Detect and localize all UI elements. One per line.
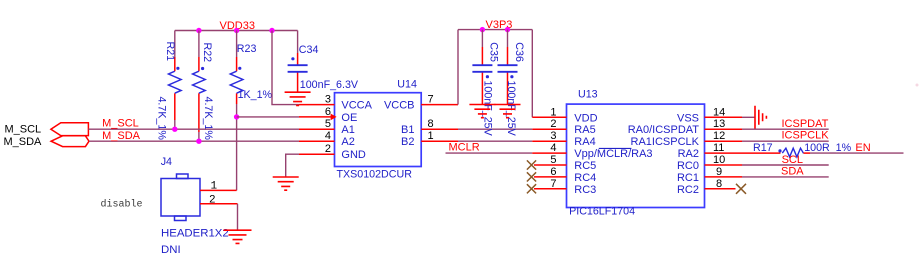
wire R22 to M_SDA xyxy=(198,132,200,141)
wire EN xyxy=(810,152,904,154)
U13 pin 8 RC2 stub (no connect) xyxy=(705,188,736,190)
svg-text:VSS: VSS xyxy=(677,112,699,124)
svg-text:100nF_6.3V: 100nF_6.3V xyxy=(300,79,359,91)
resistor R1 pin leads R21 xyxy=(174,57,176,120)
svg-text:VDD: VDD xyxy=(574,112,597,124)
U13 pin 12 ICSPCLK stub xyxy=(705,140,743,142)
U14 pin 2 GND stub xyxy=(299,153,335,155)
wire J4 pin 2 to ground xyxy=(237,204,239,230)
svg-text:J4: J4 xyxy=(161,156,172,168)
wire VDD33 to R23 xyxy=(236,31,238,58)
svg-text:A1: A1 xyxy=(341,124,354,136)
svg-text:M_SCL: M_SCL xyxy=(102,118,139,130)
U13 pin 2 RA5 stub xyxy=(532,128,566,130)
overline over MCLR xyxy=(599,147,632,149)
svg-text:A2: A2 xyxy=(341,136,354,148)
svg-text:DNI: DNI xyxy=(161,244,181,256)
resistor R22 xyxy=(193,71,206,93)
svg-text:RC5: RC5 xyxy=(574,160,596,172)
svg-text:7: 7 xyxy=(428,94,434,106)
svg-text:SCL: SCL xyxy=(782,154,803,166)
svg-text:11: 11 xyxy=(713,142,724,154)
svg-text:RA5: RA5 xyxy=(574,124,595,136)
junction V3P3/C36 xyxy=(505,27,510,32)
wire VSS to ground xyxy=(742,116,755,118)
svg-text:PIC16LF1704: PIC16LF1704 xyxy=(569,205,635,217)
junction V3P3/C35 xyxy=(480,27,485,32)
wire B1 to U13 RA5 xyxy=(458,128,532,130)
no-connect X pin 5 xyxy=(527,160,536,169)
U14 pin 4 A2 stub xyxy=(299,140,335,142)
svg-text:GND: GND xyxy=(341,149,366,161)
svg-text:7: 7 xyxy=(550,178,556,190)
svg-text:C35: C35 xyxy=(488,42,500,62)
port M_SCL xyxy=(51,123,89,136)
resistor R17 xyxy=(782,148,803,157)
svg-text:ICSPDAT: ICSPDAT xyxy=(782,118,829,130)
U13 pin 11 RA2 stub xyxy=(705,152,781,154)
capacitor C34 xyxy=(288,65,308,72)
U14 pin 8 B1 stub xyxy=(421,128,458,130)
pin1 dot R22 xyxy=(201,67,204,70)
svg-text:MCLR: MCLR xyxy=(449,142,480,154)
svg-text:3: 3 xyxy=(325,94,331,106)
no-connect X pin 6 xyxy=(527,172,536,181)
wire U14 GND to ground xyxy=(286,154,299,176)
wire ICSPDAT xyxy=(742,128,829,130)
faint artifact dot xyxy=(916,84,919,87)
svg-text:1: 1 xyxy=(211,181,218,193)
wire B2 to U13 RA4 xyxy=(458,140,532,142)
svg-text:3: 3 xyxy=(550,130,556,142)
svg-text:ICSPCLK: ICSPCLK xyxy=(782,130,830,142)
svg-text:5: 5 xyxy=(550,154,556,166)
pin1 dot C34 xyxy=(291,57,294,60)
pin1 dot R21 xyxy=(176,67,179,70)
svg-text:2: 2 xyxy=(325,143,331,155)
ground under U14 GND xyxy=(273,177,299,190)
svg-text:Vpp/MCLR/RA3: Vpp/MCLR/RA3 xyxy=(574,148,652,160)
capacitor C34 leads xyxy=(297,53,299,92)
svg-text:RA2: RA2 xyxy=(678,148,699,160)
wire SDA xyxy=(742,176,829,178)
U13 pin names right xyxy=(628,112,700,196)
svg-text:5: 5 xyxy=(325,118,331,130)
wire MCLR to U13 pin 4 xyxy=(446,152,533,154)
ground under C35 xyxy=(469,105,495,118)
wire V3P3 to U13 VDD xyxy=(531,30,533,118)
U14 pin 6 arrow xyxy=(331,114,337,121)
U14 pin 6 OE stub xyxy=(299,116,331,118)
svg-text:1: 1 xyxy=(428,130,434,142)
U13 pin 7 RC3 stub (no connect) xyxy=(534,188,567,190)
svg-text:2: 2 xyxy=(550,118,556,130)
wire VDD33 to R22 xyxy=(198,31,200,58)
transistor U13 body xyxy=(567,104,705,207)
resistor R22 pin leads xyxy=(198,57,200,132)
svg-text:4: 4 xyxy=(550,142,556,154)
junction VDD33/R22 xyxy=(196,28,201,33)
U14 pin 5 A1 stub xyxy=(299,128,335,130)
svg-text:8: 8 xyxy=(428,118,434,130)
pin1 dot C36 xyxy=(510,75,513,78)
U14 pin 3 VCCA stub xyxy=(299,104,335,106)
junction VDD33/R23 xyxy=(234,28,239,33)
U13 pin 14 VSS stub xyxy=(705,116,743,118)
wire ICSPCLK xyxy=(742,140,829,142)
wire VDD33 to U14 VCCA xyxy=(272,31,299,105)
svg-text:SDA: SDA xyxy=(781,166,804,178)
svg-text:RC2: RC2 xyxy=(677,184,699,196)
U14 pin names right xyxy=(384,100,415,149)
svg-text:13: 13 xyxy=(713,118,725,130)
pin1 dot R23 xyxy=(238,67,241,70)
svg-text:disable: disable xyxy=(101,199,143,211)
wire VDD33 rail xyxy=(175,30,298,32)
svg-text:M_SCL: M_SCL xyxy=(5,124,42,136)
U13 pin names left xyxy=(574,112,652,196)
svg-text:RA0/ICSPDAT: RA0/ICSPDAT xyxy=(628,124,700,136)
svg-text:4.7K_1%: 4.7K_1% xyxy=(155,97,167,141)
junction M_SDA/R22 xyxy=(196,139,201,144)
J4 pin 1 wire xyxy=(200,189,237,191)
no-connect X pin 8 xyxy=(736,184,746,194)
svg-text:4.7K_1%: 4.7K_1% xyxy=(202,97,214,141)
capacitor C36 leads xyxy=(507,47,509,104)
no-connect X pin 7 xyxy=(527,184,536,193)
op-amp U14 body xyxy=(335,93,422,167)
svg-text:VCCB: VCCB xyxy=(384,100,415,112)
svg-text:10: 10 xyxy=(713,154,725,166)
svg-text:14: 14 xyxy=(713,106,725,118)
U13 pin 9 RC1 stub xyxy=(705,176,743,178)
svg-text:C34: C34 xyxy=(299,44,319,56)
ground under J4 xyxy=(224,230,252,243)
svg-text:8: 8 xyxy=(716,178,722,190)
U14 pin names left xyxy=(341,100,372,162)
wire R23 down to J4 pin 1 xyxy=(236,104,238,190)
wire V3P3 to C36 xyxy=(507,30,509,47)
svg-text:RC3: RC3 xyxy=(574,184,596,196)
U14 pin 7 VCCB stub xyxy=(421,104,458,106)
svg-text:2: 2 xyxy=(209,195,216,207)
U14 pin 1 B2 stub xyxy=(421,140,458,142)
svg-text:EN: EN xyxy=(855,142,870,154)
svg-text:12: 12 xyxy=(713,130,725,142)
U13 pin 13 ICSPDAT stub xyxy=(705,128,743,130)
capacitor C35 leads xyxy=(481,47,483,104)
wire M_SDA to U14 A2 xyxy=(89,140,299,142)
wire SCL xyxy=(742,164,829,166)
connector J4 xyxy=(161,174,200,221)
svg-text:R22: R22 xyxy=(201,43,213,63)
svg-text:TXS0102DCUR: TXS0102DCUR xyxy=(337,168,413,180)
wire R21 to M_SCL xyxy=(174,120,176,129)
ground at VSS (rotated) xyxy=(755,106,766,129)
svg-text:6: 6 xyxy=(325,106,331,118)
svg-text:R17: R17 xyxy=(753,142,773,154)
svg-text:OE: OE xyxy=(341,112,357,124)
U13 pin 5 RC5 stub (no connect) xyxy=(534,164,567,166)
capacitor C35 xyxy=(472,65,492,72)
svg-text:1K_1%: 1K_1% xyxy=(238,89,273,101)
svg-text:R21: R21 xyxy=(164,42,176,62)
port M_SDA xyxy=(51,136,89,147)
svg-text:RC1: RC1 xyxy=(677,172,699,184)
ground under C36 xyxy=(495,105,521,118)
ground under C34 xyxy=(285,92,311,105)
svg-text:1: 1 xyxy=(550,106,556,118)
junction M_SCL/R21 xyxy=(172,127,177,132)
svg-text:4: 4 xyxy=(325,130,331,142)
svg-text:RA1ICSPCLK: RA1ICSPCLK xyxy=(631,136,700,148)
svg-text:100R_1%: 100R_1% xyxy=(804,142,851,154)
resistor R17 lead right xyxy=(804,152,811,154)
junction R23/OE wire xyxy=(234,114,239,119)
wire V3P3 rail xyxy=(458,29,532,31)
svg-text:U13: U13 xyxy=(578,89,598,101)
resistor R23 pin leads xyxy=(236,57,238,104)
svg-text:9: 9 xyxy=(716,166,722,178)
svg-text:M_SDA: M_SDA xyxy=(102,130,141,142)
wire V3P3 to C35 xyxy=(481,30,483,47)
svg-text:U14: U14 xyxy=(397,78,417,90)
svg-text:RA4: RA4 xyxy=(574,136,595,148)
wire VDD33 to C34 xyxy=(297,31,299,54)
svg-text:RC0: RC0 xyxy=(677,160,699,172)
resistor R21 xyxy=(169,71,182,93)
U13 pin 4 MCLR stub xyxy=(532,152,566,154)
U13 pin 1 VDD stub xyxy=(532,116,566,118)
wire R23 to U14 OE xyxy=(237,116,299,118)
pin1 dot C35 xyxy=(486,75,489,78)
svg-text:6: 6 xyxy=(550,166,556,178)
svg-text:B1: B1 xyxy=(401,124,414,136)
junction VDD33/VCCA drop xyxy=(269,28,274,33)
U13 pin 3 RA4 stub xyxy=(532,140,566,142)
U13 pin 10 RC0 stub xyxy=(705,164,743,166)
svg-text:HEADER1X2: HEADER1X2 xyxy=(161,228,229,240)
svg-text:RC4: RC4 xyxy=(574,172,596,184)
svg-text:R23: R23 xyxy=(237,43,257,55)
pin1 dot R17 xyxy=(778,149,781,152)
svg-text:M_SDA: M_SDA xyxy=(4,136,43,148)
svg-text:C36: C36 xyxy=(513,42,525,62)
wire VCCB to V3P3 xyxy=(457,30,459,105)
J4 pin 2 wire xyxy=(200,203,238,205)
wire M_SCL to U14 A1 xyxy=(88,128,299,130)
svg-text:VCCA: VCCA xyxy=(341,100,372,112)
svg-text:B2: B2 xyxy=(401,136,414,148)
resistor R23 xyxy=(230,71,243,93)
capacitor C36 xyxy=(498,65,518,72)
wire VDD33 to R21 xyxy=(174,31,176,58)
U13 pin 6 RC4 stub (no connect) xyxy=(534,176,567,178)
